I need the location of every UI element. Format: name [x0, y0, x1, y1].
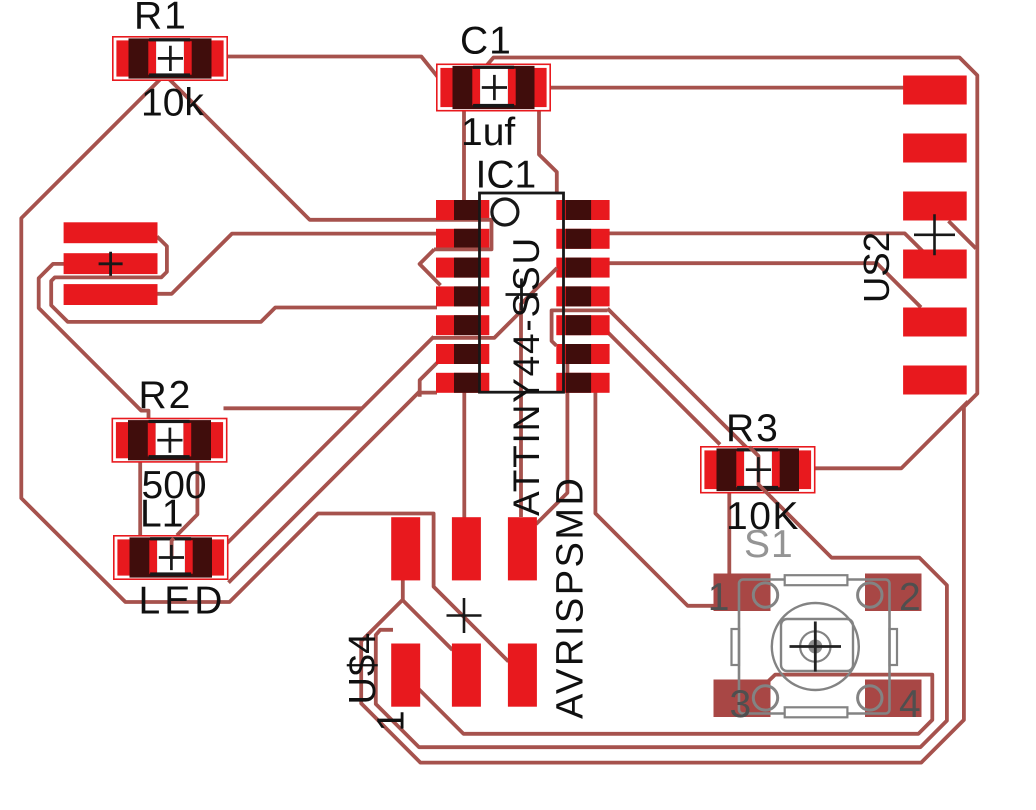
svg-text:ATTINY44-SSU: ATTINY44-SSU [506, 236, 547, 516]
IC1 pad 5 [436, 315, 489, 335]
resistor R1 [112, 36, 228, 81]
US2 pad 3 [903, 192, 967, 221]
wire US2 pad3 corner to right rail [949, 221, 977, 249]
wire S1 pad3 around S1 pad4 to US4 pad4 (rail1) [418, 675, 933, 734]
US4 pad 5 [452, 644, 481, 707]
resistor R3 [700, 446, 816, 494]
svg-text:1: 1 [371, 710, 413, 731]
wire chevron into IC1 pad4 [420, 249, 441, 285]
wire R2 pad1 down to L1 pad1 [138, 462, 142, 537]
svg-text:LED: LED [139, 580, 227, 623]
wire IC1 pad10 to R3 pad1 [608, 333, 720, 445]
svg-text:S1: S1 [744, 523, 794, 566]
IC1 pad 9 [556, 344, 609, 364]
wire interior DA horizontal into IC [433, 311, 521, 338]
wire IC1 pad9 down to US4 pad3 [536, 362, 567, 524]
svg-text:R3: R3 [726, 407, 780, 450]
IC1 pad 13 [556, 229, 609, 249]
svg-text:AVRISPSMD: AVRISPSMD [550, 475, 592, 719]
wire L1 pad2 bottom diagonal DB to IC1 pad6/pad7 [229, 391, 420, 582]
S1 corner ring pad2 [858, 583, 882, 607]
svg-text:U$4: U$4 [342, 632, 384, 705]
S1 pad 4 [865, 680, 922, 718]
US2 pad 1 [903, 76, 967, 105]
S1 center cross [790, 622, 842, 672]
IC1 pad 6 [436, 344, 489, 364]
US2 pad 2 [903, 134, 967, 163]
wire US4 pad1 to US4 pad5 [403, 600, 453, 650]
S1 pad 2 [865, 574, 922, 612]
svg-text:US2: US2 [856, 232, 897, 303]
wire interior of L1 (visible over white center) [172, 538, 174, 559]
svg-text:R2: R2 [139, 374, 193, 417]
C1 origin cross [482, 75, 507, 100]
jumper pad bar2 [64, 253, 158, 274]
svg-text:10k: 10k [141, 82, 204, 125]
capacitor C1 [436, 64, 551, 112]
svg-text:3: 3 [730, 683, 752, 726]
wire jumper bar2 outer loop to R2 pad1 [39, 264, 149, 420]
S1 big circle [772, 603, 859, 690]
S1 corner ring pad3 [753, 686, 777, 710]
wire interior of IC1: RESET net under pad1 to chevron [434, 220, 492, 250]
svg-text:1uf: 1uf [461, 111, 515, 154]
S1 body outline [739, 580, 890, 714]
S1 center small circle [800, 631, 830, 661]
US2 pad 4 [903, 250, 967, 279]
S1 pad numbers [708, 576, 921, 726]
S1 pad 3 [714, 680, 771, 718]
wire C1 pad2 to US2 pad1 [549, 86, 906, 90]
IC1 pad 12 [556, 258, 609, 278]
R3 origin cross [746, 457, 771, 482]
IC1 pad 2 [436, 229, 489, 249]
wire R2 pad2 top joining DA [224, 406, 363, 410]
wire interior of IC1: pad12 to x521 vertical down to US4 pad3 [521, 268, 557, 517]
IC1 pad 14 [556, 200, 609, 220]
US4 pad 6 [508, 644, 537, 707]
IC1 origin cross [506, 279, 538, 311]
wire R3 pad1 down to S1 pad1 [727, 489, 731, 578]
wire jumper bar3 to IC1 pad2 [156, 234, 437, 294]
S1 corner ring pad1 [753, 583, 777, 607]
S1 pad 1 [714, 574, 771, 612]
wire C1 pad1 to IC1 pad1 [462, 110, 466, 202]
US4 pad 1 [391, 517, 420, 580]
jumper pad bar3 [64, 284, 158, 305]
R1 origin cross [158, 46, 183, 71]
wire R3 pad2 wrap around S1 pad2 down to bottom rail2 and US4 pad4 [376, 497, 947, 748]
svg-text:1: 1 [708, 576, 730, 619]
wire jumper bar1 hook down, left loop, bottom, to IC1 pad4 bottom [51, 237, 437, 322]
IC1 pin1 circle [492, 199, 518, 225]
jumper pad bar1 [64, 222, 158, 243]
LED L1 [113, 535, 229, 580]
S1 corner ring pad4 [858, 686, 882, 710]
US4 pad 2 [452, 517, 481, 580]
svg-text:IC1: IC1 [476, 154, 537, 197]
wire R1 pad1 branch right to IC region (RESET net) [166, 76, 480, 220]
S1 top tab [785, 575, 848, 585]
svg-text:2: 2 [899, 576, 921, 619]
IC1 pad 4 [436, 286, 489, 306]
wire C1 pad2 to IC1 pad14 [539, 110, 557, 198]
wire L1 pad2 top diagonal DA to IC interior [227, 337, 434, 544]
svg-text:4: 4 [899, 683, 921, 726]
wire R1 pad1 down-left, left edge, under LED, up to US4 pad6 [21, 76, 508, 662]
switch S1 body graphics [732, 575, 898, 717]
S1 left tab [732, 629, 740, 665]
wire R3 pad2 to US2 pad6 [813, 402, 968, 469]
wire C1 top to right-edge rail, down right side, bottom rail, to US4 pad1 [361, 58, 977, 763]
jumper origin cross [99, 252, 123, 276]
US2 pad 5 [903, 308, 967, 337]
svg-text:L1: L1 [140, 493, 183, 536]
wire R1 pad2 to C1 pad1 [224, 57, 438, 78]
IC1 pad 7 [436, 373, 489, 393]
wire IC1 pad7 down to US4 pad2 [462, 390, 466, 521]
wire interior of IC1: pad9 inner loop [552, 310, 608, 345]
svg-text:C1: C1 [460, 20, 512, 63]
US4 pad 3 [508, 517, 537, 580]
L1 origin cross [159, 545, 184, 570]
R2 origin cross [157, 428, 182, 453]
IC1 pad 8 [556, 373, 609, 393]
S1 right tab [890, 629, 898, 665]
US2 origin cross [914, 214, 955, 255]
US2 pad 6 [903, 366, 967, 395]
wire R2 pad2 down into L1 center [177, 462, 198, 535]
wire DB stub into IC1 pad7 [420, 391, 437, 395]
S1 center dot [808, 640, 822, 654]
IC1 pad 10 [556, 315, 609, 335]
IC1 outline [480, 193, 564, 392]
svg-text:R1: R1 [134, 0, 188, 38]
S1 bottom tab [785, 707, 848, 717]
resistor R2 [112, 418, 228, 463]
S1 inner square [781, 619, 853, 671]
wire IC1 pad12 to US2 pad5 [609, 263, 921, 307]
wire DB jog into IC1 pad6 [420, 362, 438, 397]
IC1 pad 1 [436, 200, 489, 220]
wire IC1 pad13 to US2 pad4 [609, 233, 923, 251]
US4 origin cross [447, 598, 482, 633]
US4 pad 4 [391, 644, 420, 707]
IC1 body [480, 193, 564, 392]
wire IC1 pad9 loop to R3 pad2 (enters under R3) [608, 309, 751, 452]
wire interior of R3 (visible over white center) [750, 447, 773, 498]
IC1 pad 3 [436, 258, 489, 278]
IC1 pad 11 [556, 286, 609, 306]
wire IC1 pad8 down to S1 pad1 [595, 390, 716, 606]
